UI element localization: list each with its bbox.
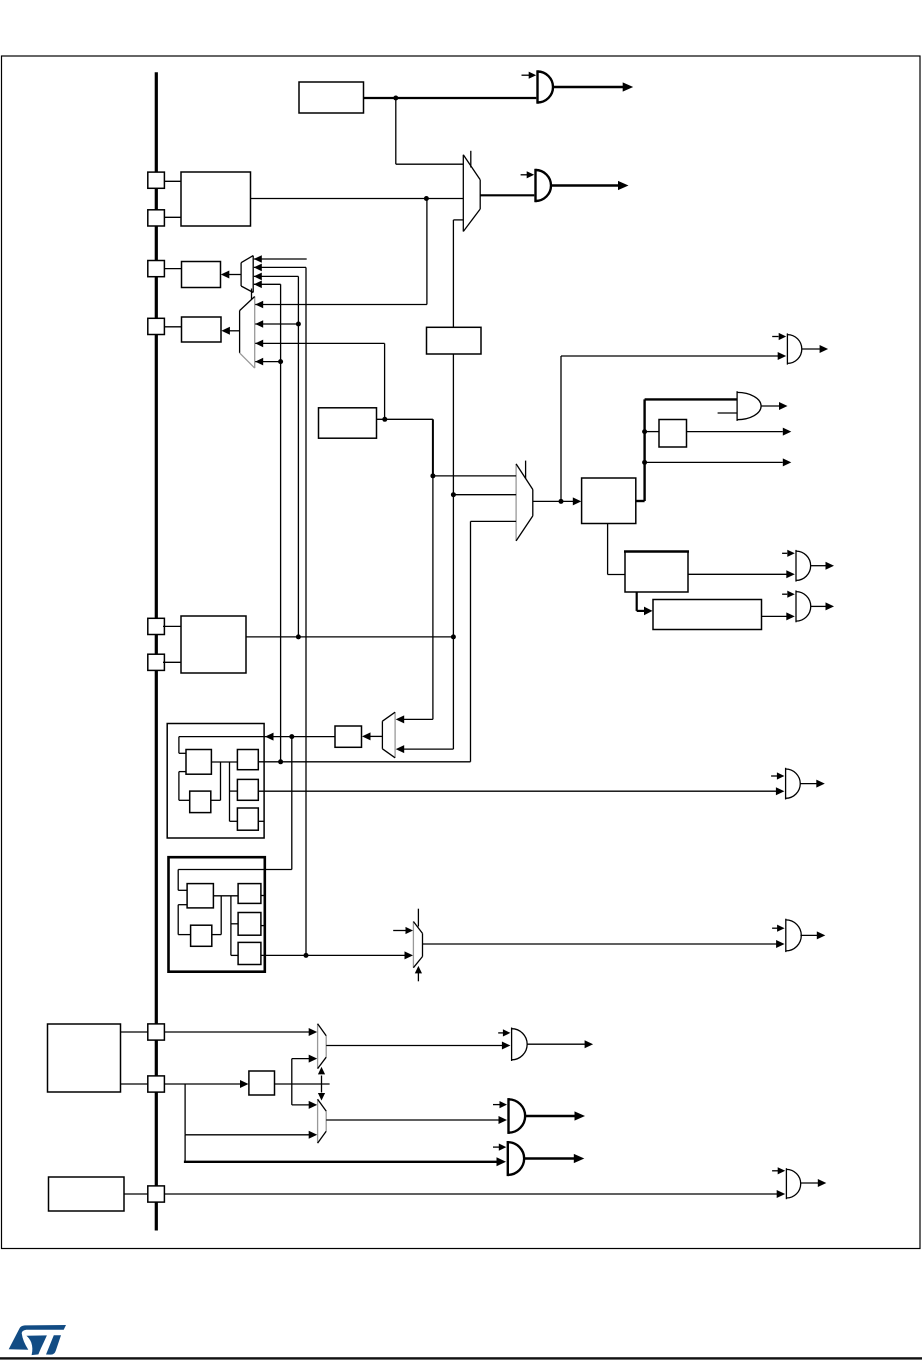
- box U4 prescaler: [182, 317, 222, 342]
- wire M3 output arrow into U4: [230, 330, 240, 332]
- box U9 APB1 prescaler: [625, 552, 688, 593]
- wire G3 enable stub: [772, 336, 778, 338]
- wire SYSCLK up to G3: [560, 356, 562, 501]
- wire G3 output arrow: [802, 348, 820, 350]
- node SYSCLK junction: [559, 499, 564, 504]
- pad P9: [148, 1186, 165, 1202]
- wire G1 enable stub: [522, 74, 530, 76]
- wire G9 enable stub: [498, 1032, 503, 1034]
- wire M6 input1 stub: [393, 930, 406, 932]
- wire M2 input3 net: [254, 275, 299, 277]
- wire U15 to pad9: [124, 1193, 148, 1195]
- wire K1 left rail: [178, 737, 180, 754]
- wire PLL out down: [432, 419, 434, 476]
- wire K2a to K2c: [213, 895, 238, 897]
- node RTCCLK junction: [289, 734, 294, 739]
- wire M3 input2: [255, 323, 298, 325]
- node LSE junction1: [296, 634, 301, 639]
- gate G5 APB1 clock gate: [795, 550, 797, 582]
- wire tap1 to U8: [645, 431, 659, 433]
- wire M6 up arrow: [417, 973, 419, 982]
- wire U9 output to G5: [688, 573, 787, 575]
- gate G9: [511, 1028, 513, 1062]
- pad P7: [148, 1024, 165, 1040]
- mux M5 RTC clock select: [381, 721, 383, 749]
- wire K1 mid riser: [229, 762, 231, 821]
- wire M7 output to G9: [326, 1045, 503, 1047]
- wire G6 enable stub: [782, 593, 787, 595]
- node PLLCLK junction: [430, 473, 435, 478]
- box U8 divider /8: [659, 420, 687, 448]
- wire K1a to K1c: [211, 761, 237, 763]
- box U7 AHB prescaler: [582, 478, 636, 524]
- mux M7: [317, 1024, 319, 1069]
- box U10 APB2 prescaler: [653, 600, 762, 630]
- wire M4 input1: [433, 475, 516, 477]
- wire K2d stub: [261, 925, 265, 927]
- wire K2 mid riser: [230, 896, 232, 956]
- wire M8 input2 net: [184, 1084, 186, 1135]
- wire pad7 to M7: [164, 1031, 310, 1033]
- node PLL out junction: [382, 417, 387, 422]
- node M3 in2 junction: [296, 322, 301, 327]
- gate G6 APB2 clock gate: [795, 590, 797, 622]
- wire G10 output arrow: [525, 1115, 575, 1117]
- wire M2 input1 stub: [254, 258, 307, 260]
- wire pad3 to U3: [165, 268, 182, 270]
- box U12 RTC prescaler: [335, 726, 362, 747]
- wire G2 enable stub: [521, 174, 527, 176]
- wire G9 output arrow: [527, 1043, 585, 1045]
- box K2a: [187, 884, 213, 908]
- wire M5 output arrow into U12: [369, 735, 383, 737]
- gate G4 cortex clock gate: [736, 391, 738, 421]
- pad P6: [148, 654, 165, 670]
- wire HSE output: [251, 198, 464, 200]
- node HSE junction: [424, 196, 429, 201]
- wire U7 down to U9: [607, 524, 609, 575]
- wire U5 bottom net: [452, 354, 454, 749]
- mux M4 clock source select: [515, 464, 517, 541]
- wire LSE output: [246, 636, 453, 638]
- wire M1 select tick: [470, 151, 472, 168]
- wire M7 select up arrow: [321, 1076, 323, 1085]
- wire M1 output (thick) to G2: [480, 194, 534, 196]
- wire RTCCLK down to K2: [291, 737, 293, 870]
- wire U9 thick top edge: [624, 550, 689, 552]
- box K1a: [186, 750, 211, 775]
- wire K2b riser: [220, 896, 222, 935]
- box U1 HSI RC: [299, 82, 364, 113]
- wire G10 enable stub: [493, 1104, 500, 1106]
- wire M3 input4: [255, 361, 280, 363]
- wire G2 output arrow: [551, 184, 618, 186]
- wire K2 left rail: [177, 870, 179, 891]
- wire G8 enable stub: [772, 927, 777, 929]
- node HCLK tap1: [642, 429, 647, 434]
- box U14 divider /2: [249, 1071, 275, 1095]
- node K1c junction: [278, 759, 283, 764]
- wire M4 output arrow: [533, 500, 575, 502]
- pad P8: [148, 1076, 165, 1092]
- wire M8 output to G10: [326, 1119, 500, 1121]
- wire U8 output arrow: [687, 431, 783, 433]
- wire OSC_OUT pad to HSE: [164, 216, 181, 218]
- wire U5 top to M1: [452, 220, 454, 327]
- wire G12 output arrow: [801, 1182, 818, 1184]
- wire U13 to pad7: [121, 1031, 148, 1033]
- wire M3 select tick: [251, 289, 253, 300]
- wire U13 to pad8: [121, 1083, 148, 1085]
- wire pad4 to U4: [165, 326, 182, 328]
- wire tap2 output arrow: [645, 461, 783, 463]
- wire U10 output to G6: [762, 615, 787, 617]
- mux M3: [239, 311, 241, 353]
- box K2b: [191, 925, 212, 946]
- wire U9 to U10 (thick arrow): [636, 592, 638, 611]
- wire PLL output: [377, 418, 433, 420]
- mux M6 IWDG clock select: [412, 922, 414, 968]
- box K2c: [238, 884, 261, 904]
- box K1b: [190, 791, 211, 813]
- wire M6 select tick: [417, 909, 419, 927]
- wire G12 enable stub: [772, 1170, 778, 1172]
- box U3 prescaler: [182, 262, 221, 288]
- pad P2: [148, 210, 165, 226]
- box K1c: [237, 750, 258, 770]
- wire HSI to SW mux: [395, 98, 397, 164]
- block K1 backup domain: [167, 724, 264, 839]
- node LSE junction2: [451, 634, 456, 639]
- box U5 PLL divider: [427, 327, 482, 354]
- gate G1 FLITF clock gate: [536, 70, 538, 103]
- wire G4 output arrow: [761, 405, 779, 407]
- wire M1 input3 from PLL divider: [453, 219, 463, 221]
- box K1e: [237, 808, 258, 830]
- wire M2 output arrow into U3: [228, 274, 241, 276]
- box K2d: [238, 913, 261, 936]
- gate G2 system clock gate: [534, 169, 536, 202]
- wire M8 select down arrow: [321, 1084, 323, 1093]
- box U15 LSI RC: [49, 1177, 125, 1211]
- wire G11 output arrow: [525, 1157, 575, 1159]
- wire OSC32_OUT pad: [163, 661, 181, 663]
- gate G10: [507, 1098, 509, 1134]
- wire M4 input3 net: [471, 520, 517, 522]
- wire K2e output to M6: [261, 954, 406, 956]
- pad P1: [148, 172, 165, 188]
- wire G4 input2: [718, 412, 738, 414]
- clock bus (thick vertical): [155, 72, 158, 1230]
- mux M1 system clock switch: [462, 155, 464, 232]
- box K2e: [238, 942, 261, 964]
- box U13 ethernet PHY: [48, 1024, 121, 1092]
- mux M8: [317, 1099, 319, 1143]
- wire K2c stub: [261, 895, 265, 897]
- wire K1c output net to M4: [258, 761, 470, 763]
- gate G3 clock gate: [786, 333, 788, 364]
- wire G8 output arrow: [800, 934, 817, 936]
- node HCLK tap2: [642, 460, 647, 465]
- wire G7 output arrow: [800, 783, 816, 785]
- gate G11: [507, 1141, 509, 1176]
- wire G5 enable stub: [782, 552, 787, 554]
- gate G12: [785, 1168, 787, 1199]
- node M4 in2 junction: [451, 492, 456, 497]
- wire M3 input3 from PLL: [255, 342, 384, 344]
- wire M2 input2 net: [254, 266, 306, 268]
- gate G7 RTC clock gate: [785, 768, 787, 800]
- wire M2 input4 net: [254, 283, 281, 285]
- wire G6 output arrow: [811, 605, 826, 607]
- pad P3: [148, 261, 165, 277]
- wire K1d output to G7: [258, 790, 778, 792]
- box U2 HSE OSC: [181, 172, 251, 226]
- wire M4 input1 down branch to RTC mux: [432, 476, 434, 720]
- wire HCLK thick path: [636, 500, 645, 502]
- wire G7 enable stub: [771, 775, 777, 777]
- node M3 in4 junction: [278, 359, 283, 364]
- wire U14 branch bracket: [291, 1059, 293, 1105]
- box U11 LSE OSC: [181, 616, 246, 673]
- wire K1b riser: [220, 762, 222, 800]
- mux M2: [240, 263, 242, 286]
- wire OSC_IN pad to HSE: [164, 180, 181, 182]
- pad P4: [148, 318, 165, 334]
- wire M5 input2: [404, 748, 454, 750]
- wire pad9 to G12: [164, 1193, 778, 1195]
- box U6 PLL: [319, 408, 377, 438]
- wire K1e stub: [258, 820, 264, 822]
- wire thick net to G11: [184, 1135, 186, 1162]
- wire M6 output to G8: [423, 943, 778, 945]
- wire U14 output stub: [275, 1083, 330, 1085]
- wire G11 enable stub: [493, 1146, 499, 1148]
- wire G1 output arrow: [553, 86, 623, 88]
- block K2 independent watchdog: [169, 857, 265, 972]
- wire G5 output arrow: [811, 565, 826, 567]
- wire M5 input1: [404, 718, 433, 720]
- wire HSI output (thick): [364, 97, 537, 99]
- wire OSC32_IN pad: [163, 625, 181, 627]
- wire M4 select tick: [525, 461, 527, 479]
- wire U12 output to timer block: [179, 736, 335, 738]
- node HSI junction: [393, 96, 398, 101]
- box K1d: [237, 779, 258, 800]
- footer rule: [0, 1357, 922, 1359]
- pad P5: [148, 618, 165, 634]
- gate G8 IWDG clock gate: [785, 919, 787, 952]
- wire M3 input1 from HSE tap: [255, 304, 427, 306]
- node LSI junction: [304, 953, 309, 958]
- ST logo: [9, 1325, 66, 1355]
- wire M4 input2: [453, 494, 516, 496]
- wire pad8 to U14: [164, 1083, 241, 1085]
